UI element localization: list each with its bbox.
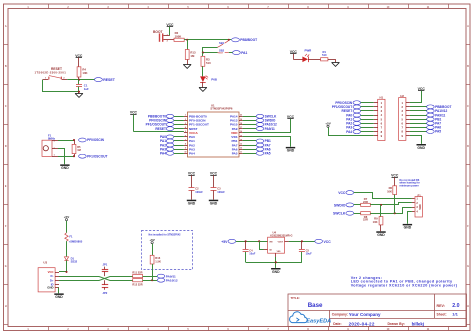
svg-text:GND: GND xyxy=(404,226,412,230)
svg-text:C: C xyxy=(5,105,7,108)
svg-text:100K: 100K xyxy=(175,34,182,38)
svg-text:GND: GND xyxy=(417,146,425,150)
svg-text:R6: R6 xyxy=(389,186,393,190)
svg-text:2: 2 xyxy=(185,119,186,121)
svg-text:Company:: Company: xyxy=(332,313,348,317)
svg-text:Base: Base xyxy=(308,302,323,309)
svg-text:1TS002E-2300-2501: 1TS002E-2300-2501 xyxy=(35,70,67,74)
svg-text:12: 12 xyxy=(240,148,242,150)
svg-text:GND: GND xyxy=(55,295,63,299)
svg-text:XC6220B331MR-G: XC6220B331MR-G xyxy=(270,233,293,237)
svg-text:6: 6 xyxy=(185,135,186,137)
svg-text:R12 22R: R12 22R xyxy=(132,283,142,287)
svg-text:GND: GND xyxy=(287,149,295,153)
svg-text:SB1: SB1 xyxy=(219,41,225,45)
svg-text:20: 20 xyxy=(240,115,242,117)
svg-text:P6B: P6B xyxy=(211,78,217,82)
svg-text:+SMD0805: +SMD0805 xyxy=(69,240,83,244)
svg-text:VCC: VCC xyxy=(338,191,346,195)
svg-text:VCC: VCC xyxy=(324,240,332,244)
svg-text:7: 7 xyxy=(185,139,186,141)
svg-text:4: 4 xyxy=(185,126,186,129)
svg-text:BOOT: BOOT xyxy=(153,30,163,34)
svg-text:minimum power: minimum power xyxy=(400,185,419,188)
svg-text:PF1/OSCOUT: PF1/OSCOUT xyxy=(87,154,107,158)
svg-text:10uF: 10uF xyxy=(306,252,312,256)
svg-text:RESET: RESET xyxy=(155,127,166,131)
svg-text:R11 22R: R11 22R xyxy=(132,271,142,275)
svg-text:1M: 1M xyxy=(190,54,195,58)
svg-text:C: C xyxy=(467,105,469,108)
svg-text:R9: R9 xyxy=(374,217,378,221)
svg-text:PA10/12: PA10/12 xyxy=(166,278,178,282)
svg-text:100nF: 100nF xyxy=(195,190,203,194)
svg-text:A: A xyxy=(5,25,7,28)
svg-text:billekj: billekj xyxy=(412,321,424,326)
svg-text:B: B xyxy=(467,65,469,68)
svg-text:D: D xyxy=(5,145,7,148)
svg-text:22R: 22R xyxy=(363,200,368,204)
svg-text:SB2: SB2 xyxy=(219,49,225,53)
svg-text:JP1: JP1 xyxy=(103,262,108,266)
svg-text:5: 5 xyxy=(185,131,186,133)
svg-text:Voltage regulator XC6210 or XC: Voltage regulator XC6210 or XC6220 (more… xyxy=(351,284,458,288)
svg-text:GND: GND xyxy=(47,286,53,290)
svg-text:GND: GND xyxy=(272,270,280,274)
svg-text:A: A xyxy=(467,25,469,28)
svg-text:9: 9 xyxy=(185,148,186,150)
svg-text:PA4: PA4 xyxy=(346,130,352,134)
svg-text:2020-04-22: 2020-04-22 xyxy=(349,321,375,326)
svg-text:H: H xyxy=(5,305,7,308)
svg-text:SS32: SS32 xyxy=(71,260,78,264)
svg-text:RESET: RESET xyxy=(103,78,116,82)
svg-text:18: 18 xyxy=(240,123,242,125)
svg-text:TITLE:: TITLE: xyxy=(291,296,300,300)
svg-text:16: 16 xyxy=(240,131,242,133)
svg-text:1M: 1M xyxy=(77,148,81,152)
svg-text:+5V: +5V xyxy=(221,240,228,244)
svg-text:VOUT: VOUT xyxy=(278,241,284,243)
svg-text:PA9/11: PA9/11 xyxy=(265,127,275,131)
svg-text:1/1: 1/1 xyxy=(452,312,458,317)
svg-text:10: 10 xyxy=(184,152,186,154)
svg-text:10uF: 10uF xyxy=(249,252,255,256)
svg-text:VCC: VCC xyxy=(391,173,399,177)
svg-text:JP2: JP2 xyxy=(103,291,108,295)
svg-text:Drawn By:: Drawn By: xyxy=(388,322,405,326)
svg-text:GND: GND xyxy=(188,202,196,206)
svg-text:100nF: 100nF xyxy=(217,190,225,194)
svg-text:U3: U3 xyxy=(43,261,47,265)
svg-text:R16: R16 xyxy=(155,256,160,260)
svg-text:GND: GND xyxy=(210,202,218,206)
svg-text:1: 1 xyxy=(54,154,55,156)
svg-text:Not installed for STM32F042: Not installed for STM32F042 xyxy=(149,233,182,236)
svg-text:G: G xyxy=(5,265,7,268)
svg-text:STM32F042F6P6: STM32F042F6P6 xyxy=(210,106,233,110)
svg-text:PA5: PA5 xyxy=(265,151,271,155)
svg-text:PA4: PA4 xyxy=(160,151,166,155)
svg-text:3: 3 xyxy=(54,141,55,143)
svg-text:VCC: VCC xyxy=(188,171,196,175)
svg-text:2: 2 xyxy=(167,41,168,43)
svg-text:3: 3 xyxy=(185,123,186,125)
svg-text:VCC: VCC xyxy=(210,171,218,175)
svg-text:G: G xyxy=(467,265,469,268)
svg-text:PA5: PA5 xyxy=(435,130,441,134)
svg-text:B: B xyxy=(5,65,7,68)
svg-text:EasyEDA: EasyEDA xyxy=(306,319,331,325)
svg-text:F1: F1 xyxy=(69,234,73,238)
svg-text:PA1: PA1 xyxy=(241,51,247,55)
svg-text:VCC: VCC xyxy=(130,111,138,115)
svg-text:PA4: PA4 xyxy=(189,151,195,155)
svg-text:PA5: PA5 xyxy=(232,151,238,155)
svg-text:PF0/OSCIN: PF0/OSCIN xyxy=(87,138,105,142)
svg-text:10K: 10K xyxy=(82,71,87,75)
svg-text:GND: GND xyxy=(377,233,385,237)
svg-text:1: 1 xyxy=(185,115,186,117)
svg-text:GND: GND xyxy=(61,166,69,170)
svg-text:10K: 10K xyxy=(387,190,392,194)
svg-text:11: 11 xyxy=(240,152,242,154)
svg-text:510: 510 xyxy=(206,61,211,65)
svg-text:17: 17 xyxy=(240,127,242,129)
svg-text:2.0: 2.0 xyxy=(452,303,459,309)
svg-text:Sheet:: Sheet: xyxy=(437,312,447,316)
svg-text:10K: 10K xyxy=(373,220,378,224)
svg-text:REV:: REV: xyxy=(437,304,445,308)
svg-text:19: 19 xyxy=(240,119,242,121)
svg-text:PWR: PWR xyxy=(305,48,313,52)
svg-text:1uF: 1uF xyxy=(84,87,89,91)
svg-text:15: 15 xyxy=(240,135,242,137)
svg-text:14: 14 xyxy=(240,138,242,141)
svg-text:13: 13 xyxy=(240,143,242,145)
svg-text:22R: 22R xyxy=(363,218,368,222)
svg-text:SWD: SWD xyxy=(419,204,422,210)
svg-text:510: 510 xyxy=(322,53,327,57)
svg-text:D: D xyxy=(467,145,469,148)
svg-text:Date:: Date: xyxy=(333,322,341,326)
svg-text:8: 8 xyxy=(185,143,186,145)
svg-text:SWCLK: SWCLK xyxy=(333,212,346,216)
svg-text:1.5K: 1.5K xyxy=(155,259,161,263)
svg-text:Your Company: Your Company xyxy=(349,312,381,317)
svg-text:SWDIO: SWDIO xyxy=(334,203,346,207)
svg-text:PB8/BOOT: PB8/BOOT xyxy=(240,38,257,42)
svg-text:H: H xyxy=(467,305,469,308)
